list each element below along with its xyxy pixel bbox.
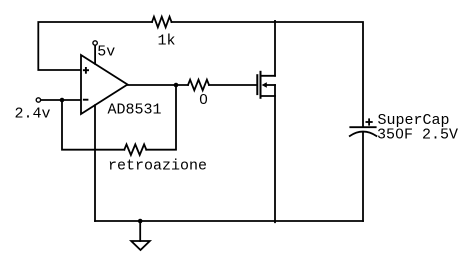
transistor Q1 drain stub (261, 75, 276, 77)
resistor R1 1k (152, 17, 172, 28)
junction dot at ground (138, 219, 143, 224)
svg-text:2.4v: 2.4v (15, 105, 51, 122)
wire feedback right vertical (146, 85, 176, 150)
wire bottom rail (95, 220, 363, 222)
op-amp minus sign (83, 99, 89, 101)
svg-text:AD8531: AD8531 (108, 102, 162, 119)
wire feedback left vertical (62, 100, 124, 150)
svg-text:5v: 5v (97, 43, 115, 60)
op-amp plus sign vertical (85, 67, 87, 74)
wire op-amp output (128, 84, 189, 86)
terminal 2.4v (36, 98, 40, 102)
wire source down to bottom rail (274, 85, 276, 222)
terminal 5v (93, 41, 97, 45)
svg-text:1k: 1k (158, 33, 176, 50)
ground (139, 221, 141, 241)
capacitor C1 curved plate (350, 132, 377, 136)
transistor Q1 source stub (261, 95, 276, 97)
wire 5v pin (94, 45, 96, 64)
wire gate (209, 84, 257, 86)
junction dot at op-amp output (174, 83, 179, 88)
op-amp U1 triangle (81, 55, 128, 114)
resistor R3 0 (188, 80, 209, 91)
svg-text:retroazione: retroazione (108, 158, 207, 175)
resistor R2 retroazione (124, 144, 146, 155)
wire capacitor to bottom rail (362, 132, 364, 221)
transistor Q1 gate bar (256, 75, 258, 94)
wire top rail right segment (172, 22, 364, 127)
capacitor C1 top plate (350, 126, 375, 128)
junction dot at inverting input (60, 98, 65, 103)
transistor Q1 channel bar (260, 72, 262, 98)
transistor Q1 body arrow (262, 82, 267, 88)
transistor Q1 body stub (266, 84, 275, 86)
wire op-amp V- pin down (94, 105, 96, 221)
wire top rail left segment (38, 22, 152, 70)
op-amp plus sign (83, 69, 89, 71)
svg-text:350F 2.5V: 350F 2.5V (377, 127, 458, 144)
zero dot masks (202, 97, 205, 100)
wire drain to top rail (274, 21, 276, 76)
capacitor plus sign (366, 121, 373, 123)
wire 2.4v input to inverting input (41, 99, 81, 101)
